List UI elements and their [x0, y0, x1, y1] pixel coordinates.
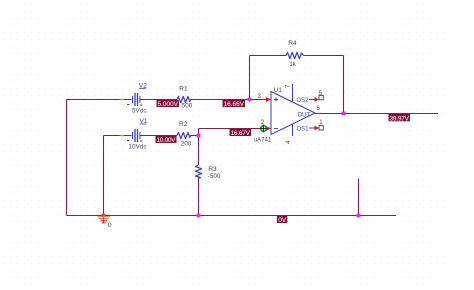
op-amp pin 3 input pin — [258, 94, 272, 102]
bias label 39.97V — [389, 114, 411, 123]
bias label 16.67V — [230, 129, 252, 137]
svg-text:0V: 0V — [278, 217, 287, 224]
wire: node B vertical through R3 — [198, 129, 200, 216]
wire: feedback right vertical — [343, 56, 345, 114]
wire: output row — [322, 113, 438, 115]
svg-text:500: 500 — [182, 103, 193, 110]
svg-text:U1: U1 — [274, 87, 283, 94]
bias label 5.000V — [157, 100, 180, 108]
junction at R2/R3 node — [197, 134, 201, 138]
svg-text:16.67V: 16.67V — [231, 130, 251, 137]
wire: feedback left vertical — [249, 56, 251, 100]
svg-text:OUT: OUT — [298, 112, 311, 118]
resistor R4 — [286, 40, 304, 68]
op-amp pin 2 input pin — [261, 120, 272, 131]
op-amp value label uA741 — [254, 138, 272, 144]
wire: feedback top left — [250, 55, 287, 57]
wire: bottom ground rail — [67, 215, 397, 217]
wire: V1 left lead — [104, 135, 132, 137]
svg-text:10.00V: 10.00V — [157, 137, 177, 144]
battery V2 — [120, 82, 148, 114]
op-amp pin 1 (OS1) end — [315, 120, 324, 130]
wire: feedback top right — [304, 55, 344, 57]
op-amp pin 6 output pin — [315, 106, 322, 114]
svg-text:R2: R2 — [179, 121, 188, 128]
svg-text:-500: -500 — [208, 173, 221, 180]
op-amp pin 5 (OS2) end — [315, 91, 324, 102]
wire: stub above rail — [358, 179, 360, 216]
resistor R3 (vertical) — [195, 165, 221, 180]
svg-text:10Vdc: 10Vdc — [129, 144, 148, 151]
svg-text:R1: R1 — [179, 85, 188, 92]
battery V1 — [120, 118, 148, 151]
svg-text:OS1: OS1 — [297, 126, 310, 132]
node marker (green) on pin 2 — [260, 125, 268, 133]
op-amp U1 — [271, 84, 315, 144]
wire: V2 to R1 and to op-amp pin3 (row 1) — [140, 99, 264, 101]
wire: V2 left lead to left rail — [67, 99, 132, 101]
junction at R3/rail — [197, 214, 201, 218]
resistor R2 — [177, 121, 192, 148]
wire: inverting input wire to op-amp pin2 — [199, 128, 264, 130]
svg-text:OS2: OS2 — [297, 98, 310, 104]
wire: left rail vertical — [66, 100, 68, 216]
svg-text:1k: 1k — [289, 61, 297, 68]
junction at output/feedback — [342, 112, 346, 116]
svg-text:R4: R4 — [288, 40, 297, 47]
junction at feedback/pin3 — [248, 98, 252, 102]
junction at stub/rail — [357, 214, 361, 218]
bias label 0V — [277, 216, 287, 224]
junction at ground — [102, 214, 106, 218]
bias label 16.66V — [223, 100, 246, 108]
wire: V1 to R2 (row 2) — [140, 135, 199, 137]
svg-text:R3: R3 — [208, 166, 217, 173]
svg-text:16.66V: 16.66V — [224, 101, 245, 108]
resistor R1 — [177, 85, 193, 109]
svg-text:0: 0 — [108, 222, 112, 229]
svg-text:5Vdc: 5Vdc — [132, 108, 147, 115]
bias label 10.00V — [156, 136, 177, 144]
svg-text:39.97V: 39.97V — [390, 115, 410, 122]
ground 0 symbol — [98, 216, 112, 230]
svg-text:200: 200 — [181, 141, 192, 148]
svg-text:5.000V: 5.000V — [158, 101, 179, 108]
wire: V1 drop to ground — [103, 136, 105, 216]
svg-text:uA741: uA741 — [254, 138, 272, 144]
